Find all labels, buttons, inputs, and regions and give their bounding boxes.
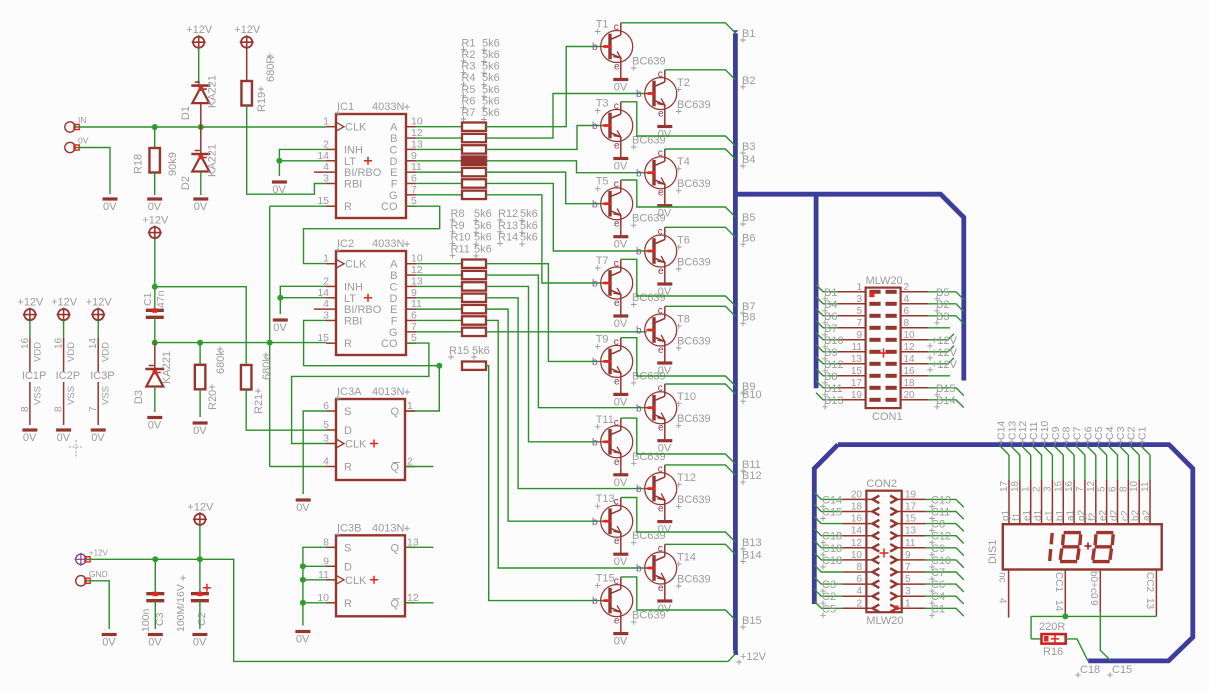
wire C3 to ground (154, 601, 156, 629)
svg-text:220R: 220R (1039, 621, 1065, 633)
ground 0V R20 (193, 423, 208, 437)
svg-text:4: 4 (323, 456, 329, 468)
wire CON1 pin 11 net B9 (816, 345, 838, 362)
bus 45-deg bottom tip to +12V wire (733, 650, 738, 655)
transistor T2 BC639 (636, 69, 711, 120)
svg-text:R15: R15 (449, 345, 469, 357)
svg-text:S: S (344, 406, 351, 418)
svg-text:0V: 0V (148, 637, 162, 649)
wire DIS1 top pin 12 net C6 (1082, 426, 1098, 524)
svg-text:16: 16 (54, 337, 65, 349)
svg-text:A: A (390, 122, 398, 134)
svg-text:13: 13 (411, 275, 423, 287)
connector CON2 MLW20 (843, 478, 925, 627)
wire DIS1 top pin 1 net C12 (1017, 421, 1033, 525)
connector CON1 MLW20 (838, 275, 928, 423)
svg-text:c: c (658, 148, 663, 159)
svg-text:e: e (614, 376, 620, 387)
wire T13 collector to bus net B13 (621, 498, 736, 543)
svg-text:20: 20 (851, 489, 863, 500)
ground 0V IC3B (295, 632, 310, 646)
wire DIS1 top pin 7 net C7 (1071, 426, 1087, 524)
wire CON1 pin 4 net B2 (928, 299, 964, 314)
svg-text:CO: CO (381, 201, 398, 213)
svg-text:C1: C1 (1137, 426, 1149, 440)
wire CON2 pin 19 net C13 (925, 494, 964, 509)
svg-text:IC3A: IC3A (337, 386, 362, 398)
ground 0V D2 (193, 199, 208, 213)
ground 0V IC3A S (296, 500, 311, 514)
svg-text:6: 6 (904, 306, 910, 317)
svg-text:2: 2 (407, 456, 413, 468)
svg-text:c: c (658, 383, 663, 394)
wire net CO2: IC2 CO to IC3A CLK (292, 343, 429, 443)
svg-text:b0+c0: b0+c0 (1088, 571, 1099, 599)
svg-text:e: e (658, 345, 664, 356)
svg-text:VDD: VDD (66, 342, 77, 362)
wire R6 to transistor base (486, 183, 647, 251)
wire CON2 pin 14 net C18 (814, 529, 843, 546)
svg-text:VDD: VDD (32, 342, 43, 362)
svg-text:T11: T11 (596, 414, 614, 426)
label resistors R1-R7 5k6 (461, 37, 500, 122)
svg-text:12: 12 (411, 127, 423, 139)
op-amp IC1 4033N counter (314, 101, 423, 218)
svg-text:B4: B4 (824, 299, 837, 311)
connector pad GND (76, 569, 108, 586)
svg-text:d2: d2 (1109, 509, 1120, 521)
wire CON1 pin 3 net B4 (816, 297, 838, 314)
svg-text:13: 13 (851, 354, 863, 365)
resistor R6 5k6 (462, 179, 486, 187)
svg-text:B14: B14 (936, 395, 956, 407)
svg-text:680k: 680k (261, 356, 273, 380)
transistor T3 BC639 (592, 98, 666, 152)
svg-text:5: 5 (1097, 486, 1108, 492)
svg-text:5k6: 5k6 (482, 49, 500, 61)
wire C2 to ground (199, 601, 201, 629)
svg-text:12: 12 (904, 342, 916, 353)
wire net R reset: IC1 R / IC2 R / IC3A R / C1 / D3 / R20 (152, 206, 326, 466)
svg-text:d1: d1 (1033, 509, 1044, 521)
svg-text:0V: 0V (614, 477, 628, 489)
ground 0V emitter T5 (613, 230, 628, 251)
wire R5 to transistor base (486, 172, 603, 204)
svg-text:B10: B10 (742, 389, 762, 401)
svg-text:b2: b2 (1131, 509, 1142, 521)
wire net IN to IC1 CLK (76, 124, 327, 130)
label resistors R8-R11 R12-R14 5k6 (450, 208, 538, 259)
svg-text:1: 1 (323, 116, 329, 128)
capacitor C3 100n (140, 559, 166, 632)
svg-text:b: b (592, 121, 598, 132)
svg-text:3: 3 (323, 433, 329, 445)
svg-text:1: 1 (407, 400, 413, 412)
svg-text:e: e (658, 504, 664, 515)
wire D2 to ground (200, 172, 202, 196)
wire T3 collector to bus net B3 (621, 102, 736, 146)
svg-text:9: 9 (905, 550, 911, 561)
wire C1 to reset net (154, 317, 156, 342)
svg-text:b: b (636, 403, 642, 414)
svg-text:IC2P: IC2P (56, 370, 80, 382)
svg-text:Q: Q (390, 462, 399, 474)
svg-text:R20: R20 (207, 390, 219, 410)
wire CON1 pin 14 net +12V (927, 358, 957, 373)
wire CON1 pin 17 net B11 (816, 381, 843, 398)
wire CON1 pin 9 net B10 (816, 333, 843, 350)
resistor R5 5k6 (462, 168, 486, 176)
svg-text:+12V: +12V (142, 215, 169, 227)
svg-text:R: R (344, 338, 352, 350)
svg-text:14: 14 (904, 354, 916, 365)
ground 0V emitter T8 (657, 356, 672, 377)
resistor R12 5k6 (462, 305, 486, 313)
svg-text:13: 13 (1144, 598, 1155, 610)
svg-text:10: 10 (411, 116, 423, 128)
svg-text:c: c (658, 227, 663, 238)
resistor R2 5k6 (462, 134, 486, 142)
wire GND connector to ground (87, 581, 110, 629)
svg-text:RBI: RBI (344, 315, 362, 327)
svg-text:8: 8 (1118, 486, 1129, 492)
svg-text:g1: g1 (1001, 509, 1012, 521)
wire R16 to bus net C18 (1066, 639, 1088, 661)
svg-text:b: b (636, 564, 642, 575)
svg-text:e: e (614, 62, 620, 73)
resistor R1 5k6 (462, 123, 486, 131)
resistor R21 680k (241, 352, 273, 414)
svg-text:B5: B5 (742, 212, 755, 224)
wire R3 to transistor base (486, 126, 603, 150)
svg-text:5: 5 (905, 574, 911, 585)
svg-text:c: c (614, 417, 619, 428)
svg-text:KA221: KA221 (161, 351, 173, 384)
svg-text:S: S (344, 542, 351, 554)
svg-text:+12V: +12V (931, 359, 958, 371)
supply +12V bottom (187, 501, 214, 526)
ground 0V IC1 INH/LT (272, 182, 287, 196)
svg-text:b: b (592, 357, 598, 368)
svg-text:5k6: 5k6 (482, 72, 500, 84)
svg-text:680R: 680R (265, 56, 277, 82)
svg-text:MLW20: MLW20 (866, 615, 903, 627)
svg-text:+12V: +12V (89, 548, 109, 557)
wire R9 to transistor base (486, 275, 647, 408)
svg-text:C11: C11 (931, 507, 950, 519)
svg-text:9: 9 (323, 555, 329, 567)
ground 0V emitter T13 (613, 547, 628, 568)
svg-text:KA221: KA221 (207, 75, 219, 108)
wire R18 to ground (154, 173, 156, 196)
svg-text:Q: Q (390, 542, 399, 554)
resistor R18 90k9 (133, 127, 180, 176)
wire T9 collector to bus net B9 (621, 338, 736, 386)
svg-text:5k6: 5k6 (482, 37, 500, 49)
wire CON2 pin 1 net C1 (925, 603, 964, 618)
svg-text:4: 4 (904, 294, 910, 305)
svg-text:5k6: 5k6 (474, 232, 492, 244)
transistor T1 BC639 (592, 19, 666, 73)
svg-text:c: c (614, 337, 619, 348)
wire IC output row to R4 (416, 160, 462, 162)
svg-text:IC3B: IC3B (337, 522, 361, 534)
svg-text:C3: C3 (822, 579, 836, 591)
wire IC output row to R13 (416, 319, 462, 321)
svg-text:12: 12 (1086, 480, 1097, 492)
svg-text:CLK: CLK (345, 575, 367, 587)
wire DIS1 pin 14 CC1 (1053, 570, 1065, 617)
svg-text:Q: Q (390, 406, 399, 418)
svg-text:2: 2 (904, 282, 910, 293)
transistor T14 BC639 (636, 544, 711, 595)
svg-text:9: 9 (411, 287, 417, 299)
ground 0V C3 (148, 635, 163, 649)
svg-text:17: 17 (851, 378, 863, 389)
svg-text:IC1: IC1 (337, 101, 354, 113)
svg-text:0V: 0V (193, 637, 207, 649)
svg-text:0V: 0V (57, 432, 71, 444)
svg-text:14: 14 (88, 337, 99, 349)
svg-text:IC3P: IC3P (90, 370, 114, 382)
resistor R14 5k6 (462, 328, 486, 336)
svg-text:19: 19 (851, 390, 863, 401)
svg-text:RBI: RBI (344, 178, 362, 190)
transistor T11 BC639 (592, 414, 666, 468)
wire CON2 pin 11 net C9 (925, 543, 964, 558)
svg-text:12: 12 (407, 592, 419, 604)
resistor R7 5k6 (462, 191, 486, 199)
svg-text:B11: B11 (824, 383, 843, 395)
svg-text:B15: B15 (936, 383, 956, 395)
power pins IC2P VDD/VSS (51, 297, 80, 425)
wire IC output row to R14 (416, 331, 462, 333)
svg-text:0V: 0V (273, 322, 287, 334)
svg-text:G: G (389, 190, 398, 202)
wire IC output row to R1 (416, 126, 462, 128)
wire CON1 pin 1 net B1 (816, 285, 838, 302)
svg-text:B12: B12 (742, 470, 762, 482)
svg-text:IN: IN (78, 115, 87, 125)
wire CON2 pin 13 net C12 (925, 531, 964, 546)
svg-text:c1: c1 (1044, 510, 1055, 521)
resistor R3 5k6 (462, 145, 486, 153)
svg-text:e: e (658, 583, 664, 594)
wire DIS1 top pin 11 net C1 (1137, 426, 1153, 524)
ground 0V R18 (147, 199, 162, 213)
svg-text:B2: B2 (936, 299, 949, 311)
svg-text:0V: 0V (614, 636, 628, 648)
svg-text:D3: D3 (133, 390, 145, 404)
svg-text:e: e (614, 457, 620, 468)
wire CON1 pin 7 net B7 (816, 321, 838, 338)
capacitor C2 100M/16V (175, 575, 211, 632)
wire DIS1 top pin 10 net C2 (1126, 426, 1142, 524)
display digits 188 (1050, 533, 1114, 562)
svg-text:VSS: VSS (101, 386, 112, 405)
svg-text:B8: B8 (824, 371, 837, 383)
svg-text:B12: B12 (824, 359, 844, 371)
svg-text:6: 6 (323, 400, 329, 412)
label net C15 (1107, 664, 1132, 678)
svg-text:5: 5 (856, 306, 862, 317)
svg-text:b: b (636, 484, 642, 495)
svg-text:5k6: 5k6 (472, 345, 490, 357)
diode D3 KA221 zener (133, 343, 173, 404)
wire T14 collector to bus net B14 (665, 544, 736, 554)
wire T1 collector to bus net B1 (621, 23, 736, 33)
svg-text:c2: c2 (1120, 510, 1131, 521)
wire R12 to transistor base (486, 309, 603, 521)
resistor R4 5k6 (462, 157, 486, 165)
wire CON2 pin 8 stub (814, 565, 843, 572)
wire IC output row to R11 (416, 297, 462, 299)
svg-text:C18: C18 (822, 543, 842, 555)
wire R13 to transistor base (486, 320, 647, 568)
svg-text:T13: T13 (596, 493, 615, 505)
svg-text:c: c (658, 544, 663, 555)
connector pad IN (65, 115, 87, 132)
svg-text:7: 7 (905, 562, 911, 573)
wire DIS1 pin 9 b0+c0 net C15 (1088, 570, 1111, 661)
svg-text:0V: 0V (658, 443, 672, 455)
ground 0V emitter T9 (613, 387, 628, 408)
svg-text:7: 7 (411, 184, 417, 196)
svg-text:c: c (614, 22, 619, 33)
svg-text:C10: C10 (931, 555, 951, 567)
wire IC output row to R7 (416, 194, 462, 196)
svg-text:16: 16 (1064, 480, 1075, 492)
wire T6 collector to bus net B6 (665, 227, 736, 237)
bus branch horizontal to CON1 (735, 194, 963, 380)
svg-text:C7: C7 (931, 567, 945, 579)
ground 0V emitter T6 (657, 277, 672, 298)
svg-text:C2: C2 (822, 591, 836, 603)
svg-text:R19: R19 (256, 92, 268, 112)
svg-text:CC1: CC1 (1053, 572, 1064, 592)
svg-text:8: 8 (856, 562, 862, 573)
svg-text:nc: nc (997, 572, 1008, 583)
wire CC1-CC2 common net and R16 branch (1031, 613, 1156, 639)
wire CON1 pin 16 stub (928, 375, 950, 377)
bus main vertical B[1..15] (733, 33, 738, 650)
svg-text:BC639: BC639 (677, 574, 711, 586)
svg-text:1: 1 (856, 282, 862, 293)
wire CON2 pin 3 net C4 (925, 591, 964, 606)
wire R14 to transistor base (486, 331, 647, 333)
svg-text:15: 15 (1053, 480, 1064, 492)
svg-text:B6: B6 (824, 311, 837, 323)
svg-text:e2: e2 (1098, 509, 1109, 521)
svg-text:+12V: +12V (740, 651, 767, 663)
wire DIS1 pin 4 nc stub (997, 570, 1009, 618)
svg-text:IC1P: IC1P (22, 370, 46, 382)
ground 0V D3 (147, 418, 162, 432)
label +12V at bus bottom (736, 651, 766, 665)
resistor R16 220R (1039, 621, 1066, 658)
svg-text:R: R (344, 462, 352, 474)
ground 0V IC2 INH/LT (273, 320, 288, 334)
svg-text:B3: B3 (936, 311, 949, 323)
wire T2 collector to bus net B2 (665, 70, 736, 80)
svg-text:R14: R14 (498, 232, 518, 244)
wire CON1 pin 6 net B3 (928, 311, 964, 326)
svg-text:11: 11 (852, 342, 863, 353)
svg-text:C1: C1 (931, 603, 945, 615)
svg-text:18: 18 (851, 502, 863, 513)
svg-text:e: e (658, 423, 664, 434)
svg-text:11: 11 (411, 161, 422, 173)
svg-text:CON2: CON2 (866, 478, 897, 490)
wire T11 collector to bus net B11 (621, 418, 736, 464)
svg-text:f1: f1 (1011, 512, 1022, 521)
ground 0V emitter T11 (613, 468, 628, 489)
svg-text:D2: D2 (180, 176, 192, 190)
wire IC3A S to ground (303, 411, 326, 494)
svg-text:BC639: BC639 (632, 56, 666, 68)
resistor R20 680k (195, 343, 227, 410)
svg-text:16: 16 (851, 514, 863, 525)
svg-text:T14: T14 (677, 552, 696, 564)
wire +12V to C1 and R21 (152, 238, 246, 365)
svg-text:0V: 0V (614, 161, 628, 173)
svg-text:g2: g2 (1076, 509, 1087, 521)
ground 0V emitter T12 (657, 515, 672, 536)
svg-text:c: c (658, 69, 663, 80)
svg-text:C1: C1 (142, 292, 154, 306)
svg-text:0V: 0V (614, 239, 628, 251)
svg-text:CC2: CC2 (1144, 572, 1155, 592)
wire CON2 pin 9 net C10 (925, 555, 964, 570)
svg-text:0V: 0V (23, 432, 37, 444)
svg-text:C2: C2 (196, 612, 208, 626)
svg-text:CO: CO (381, 338, 398, 350)
svg-text:IC2: IC2 (337, 238, 354, 250)
supply +12V for R19 (234, 24, 261, 49)
wire CON2 pin 7 net C7 (925, 567, 964, 582)
wire CON2 pin 5 net C6 (925, 579, 964, 594)
svg-text:+12V: +12V (51, 297, 78, 309)
wire R21 to IC3A D pin 5 (246, 390, 326, 431)
svg-text:C12: C12 (931, 531, 951, 543)
svg-text:b: b (636, 247, 642, 258)
wire IC3B Qbar stub (406, 602, 434, 604)
svg-text:10: 10 (904, 330, 916, 341)
svg-text:4013N: 4013N (372, 386, 404, 398)
svg-text:B6: B6 (742, 232, 755, 244)
svg-text:b: b (592, 596, 598, 607)
svg-text:0V: 0V (296, 634, 310, 646)
wire CON1 pin 12 net +12V (927, 346, 957, 361)
transistor T12 BC639 (636, 464, 711, 514)
svg-text:R10: R10 (451, 232, 471, 244)
ground 0V emitter T4 (657, 199, 672, 220)
wire DIS1 top pin 18 net C13 (1006, 421, 1022, 525)
svg-text:6: 6 (411, 172, 417, 184)
svg-text:5k6: 5k6 (474, 243, 492, 255)
svg-text:CON1: CON1 (872, 411, 903, 423)
svg-text:c: c (658, 306, 663, 317)
svg-text:3: 3 (323, 172, 329, 184)
wire R4 to transistor base (486, 161, 647, 173)
svg-text:14: 14 (317, 150, 329, 162)
svg-text:2: 2 (1032, 486, 1043, 492)
svg-text:B1: B1 (742, 28, 755, 40)
svg-text:e: e (658, 109, 664, 120)
svg-text:B13: B13 (742, 537, 762, 549)
svg-text:C9: C9 (931, 543, 945, 555)
wire D3 to ground (154, 387, 156, 413)
